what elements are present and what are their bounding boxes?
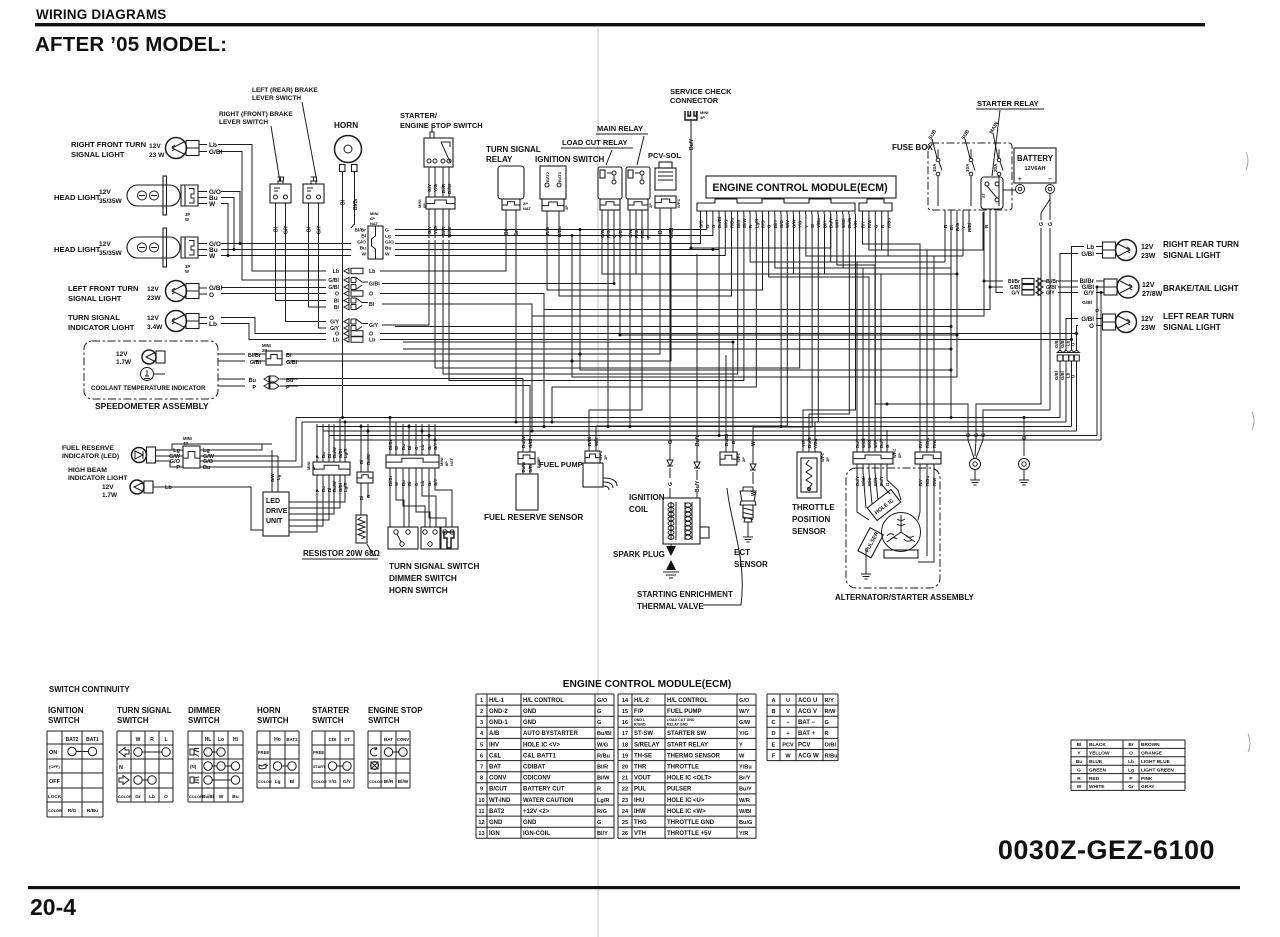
svg-text:G/Bl: G/Bl — [209, 149, 223, 156]
svg-text:Lb: Lb — [209, 142, 217, 149]
svg-text:Bl/W: Bl/W — [398, 779, 409, 785]
ECT W wire — [752, 427, 754, 464]
svg-text:WATER CAUTION: WATER CAUTION — [523, 798, 573, 804]
svg-text:GND: GND — [523, 709, 537, 715]
wire — [395, 326, 951, 328]
svg-text:R: R — [825, 731, 829, 737]
wire — [809, 214, 849, 414]
svg-text:BRAKE/TAIL LIGHT: BRAKE/TAIL LIGHT — [1163, 284, 1239, 293]
junction — [428, 434, 431, 437]
horn wires — [342, 172, 344, 241]
wire — [962, 210, 964, 256]
svg-text:1.7W: 1.7W — [102, 492, 118, 499]
svg-text:PUL: PUL — [634, 787, 646, 793]
svg-text:W/Y: W/Y — [594, 437, 599, 446]
wire — [1096, 287, 1098, 436]
wire — [221, 249, 351, 251]
svg-text:W: W — [185, 269, 189, 274]
wire — [301, 422, 303, 424]
svg-text:Bl: Bl — [334, 305, 340, 311]
wire — [415, 424, 417, 440]
svg-text:O: O — [1095, 308, 1099, 314]
wire — [780, 214, 782, 427]
wire — [323, 430, 1077, 432]
svg-text:BAT2: BAT2 — [545, 171, 550, 182]
ECM pin 7 Bl/R — [737, 211, 739, 214]
svg-text:(N): (N) — [190, 764, 197, 769]
wire — [580, 230, 951, 371]
svg-text:Bl/R: Bl/R — [441, 183, 446, 193]
wire — [286, 238, 327, 322]
wire — [221, 198, 234, 250]
junction — [1096, 286, 1099, 289]
wire — [775, 214, 951, 268]
wire — [1043, 280, 1048, 282]
svg-text:R: R — [1077, 776, 1081, 782]
wire — [552, 214, 756, 422]
svg-text:GND-1: GND-1 — [489, 720, 508, 726]
svg-text:ENGINE CONTROL MODULE(ECM): ENGINE CONTROL MODULE(ECM) — [563, 679, 731, 690]
wire — [380, 339, 1072, 341]
svg-text:BROWN: BROWN — [1141, 742, 1160, 748]
wires LED to connector — [156, 449, 184, 451]
svg-text:12V: 12V — [99, 241, 111, 248]
svg-text:22: 22 — [622, 787, 628, 793]
wire — [863, 214, 921, 426]
lamp head light 1 — [127, 176, 198, 222]
ECM connector B — [859, 199, 892, 211]
junction — [732, 341, 735, 344]
wire — [403, 342, 733, 436]
svg-text:W/Bl: W/Bl — [739, 809, 752, 815]
svg-text:6: 6 — [480, 753, 483, 759]
junction — [983, 280, 986, 283]
wire — [380, 240, 506, 271]
svg-text:HIGH BEAM: HIGH BEAM — [68, 467, 107, 474]
svg-text:Bl: Bl — [369, 302, 375, 308]
svg-text:Lb: Lb — [420, 444, 425, 450]
wires head light 2 — [198, 243, 207, 245]
svg-text:R/G: R/G — [597, 809, 607, 815]
ECM pin 21 Bl/Y — [823, 211, 825, 214]
ECM pin A R/Y — [862, 211, 864, 214]
wire — [449, 214, 744, 381]
wire speedo Bl/Br — [218, 353, 245, 355]
svg-text:R/Bu: R/Bu — [597, 753, 611, 759]
ECM pin 26 Y/R — [854, 211, 856, 214]
junction — [956, 334, 959, 337]
wire — [382, 240, 614, 284]
ECM pin 10 Lg/R — [755, 211, 757, 214]
svg-text:LEVER SWITCH: LEVER SWITCH — [219, 119, 268, 126]
svg-text:W: W — [751, 441, 757, 446]
svg-text:Bu: Bu — [1076, 759, 1082, 765]
svg-text:12: 12 — [478, 820, 484, 826]
svg-text:THROTTLE +5V: THROTTLE +5V — [667, 831, 712, 837]
header rule — [35, 23, 1205, 26]
svg-text:2P: 2P — [564, 205, 569, 210]
svg-text:Bl: Bl — [290, 779, 295, 785]
ECM pin 19 W — [811, 211, 813, 214]
wire — [1058, 286, 1078, 288]
svg-text:SIGNAL LIGHT: SIGNAL LIGHT — [1163, 251, 1221, 260]
svg-text:Y: Y — [739, 742, 743, 748]
ECM pin 25 Bu/G — [848, 211, 850, 214]
svg-text:TURN SIGNAL: TURN SIGNAL — [117, 706, 172, 715]
svg-text:−: − — [1048, 176, 1052, 183]
wire — [221, 293, 326, 295]
ECM pin 5 W/G — [724, 211, 726, 214]
svg-text:G: G — [825, 720, 829, 726]
wire Bu/Y — [690, 120, 692, 248]
svg-text:H/L-2: H/L-2 — [634, 698, 650, 704]
svg-text:COLOR: COLOR — [258, 780, 272, 784]
svg-text:R/W: R/W — [867, 219, 872, 228]
svg-text:ORANGE: ORANGE — [1141, 751, 1163, 757]
svg-text:+: + — [1018, 176, 1022, 183]
svg-text:BAT2: BAT2 — [489, 809, 505, 815]
svg-text:COLOR: COLOR — [369, 780, 383, 784]
svg-text:26: 26 — [622, 831, 628, 837]
svg-text:Hi: Hi — [233, 737, 239, 743]
svg-text:Y/R: Y/R — [739, 831, 748, 837]
svg-text:HOLE IC <V>: HOLE IC <V> — [523, 742, 561, 748]
svg-text:Lg: Lg — [1128, 767, 1134, 773]
svg-text:W: W — [751, 491, 757, 496]
wire — [287, 379, 523, 430]
svg-text:Bl: Bl — [359, 460, 364, 464]
svg-text:STARTER RELAY: STARTER RELAY — [977, 99, 1039, 108]
svg-text:W/G: W/G — [723, 219, 728, 228]
svg-text:ALTERNATOR/STARTER ASSEMBLY: ALTERNATOR/STARTER ASSEMBLY — [835, 593, 974, 602]
svg-text:G/Bl: G/Bl — [618, 229, 623, 238]
svg-text:SENSOR: SENSOR — [734, 560, 768, 569]
junction — [607, 425, 610, 428]
junction — [434, 439, 437, 442]
svg-text:PINK: PINK — [1141, 776, 1153, 782]
wire — [1071, 361, 1073, 427]
switch right front brake lever — [270, 177, 291, 203]
connector mini 2P resistor — [357, 472, 373, 483]
svg-text:ENGINE STOP SWITCH: ENGINE STOP SWITCH — [400, 121, 483, 130]
svg-text:IGN-COIL: IGN-COIL — [523, 831, 550, 837]
ECM pin 24 W/Bl — [842, 211, 844, 214]
wire — [1059, 361, 1061, 418]
svg-text:FUEL PUMP: FUEL PUMP — [667, 709, 702, 715]
svg-text:BLUE: BLUE — [1089, 759, 1103, 765]
wire — [302, 421, 1066, 423]
svg-text:25: 25 — [622, 820, 628, 826]
svg-text:RIGHT FRONT TURN: RIGHT FRONT TURN — [71, 140, 146, 149]
wire — [976, 228, 1041, 440]
wire — [221, 243, 351, 245]
svg-text:R/Y: R/Y — [861, 221, 866, 228]
svg-text:NAT: NAT — [370, 221, 378, 226]
svg-text:Y/G: Y/G — [433, 184, 438, 192]
svg-text:HORN: HORN — [334, 121, 358, 130]
svg-text:DIMMER: DIMMER — [188, 706, 221, 715]
wire — [725, 355, 727, 444]
lamp speedometer illumination 12V 1.7W — [142, 350, 165, 364]
wire — [990, 286, 1003, 288]
wire — [544, 211, 990, 310]
wire — [559, 214, 732, 296]
svg-text:LOAD CUT RELAY: LOAD CUT RELAY — [562, 138, 628, 147]
svg-text:HOLE IC <U>: HOLE IC <U> — [667, 798, 705, 804]
svg-text:THROTTLE: THROTTLE — [667, 765, 699, 771]
svg-text:A: A — [771, 698, 775, 704]
wire — [395, 214, 707, 230]
svg-text:Lb: Lb — [333, 338, 339, 344]
svg-text:G/Bl: G/Bl — [328, 278, 339, 284]
svg-text:F: F — [772, 753, 776, 759]
svg-text:G/Bl: G/Bl — [1054, 339, 1059, 348]
svg-text:HORN: HORN — [257, 706, 281, 715]
svg-text:CONV: CONV — [489, 776, 506, 782]
lamp left rear turn signal light — [1103, 312, 1137, 333]
svg-text:SIGNAL LIGHT: SIGNAL LIGHT — [1163, 323, 1221, 332]
svg-text:G/Bl: G/Bl — [1054, 371, 1059, 380]
svg-text:RIGHT (FRONT) BRAKE: RIGHT (FRONT) BRAKE — [219, 111, 293, 118]
svg-text:HOLE IC <OLT>: HOLE IC <OLT> — [667, 776, 712, 782]
wire — [1071, 340, 1073, 351]
junction — [408, 425, 411, 428]
svg-text:TURN SIGNAL: TURN SIGNAL — [68, 313, 120, 322]
svg-text:R/Y: R/Y — [918, 441, 923, 448]
wire Lb — [199, 144, 207, 146]
wire — [360, 424, 362, 427]
svg-text:HEAD LIGHT: HEAD LIGHT — [54, 193, 101, 202]
svg-text:ECT: ECT — [734, 548, 750, 557]
svg-text:23: 23 — [622, 798, 628, 804]
junction — [344, 421, 347, 424]
svg-text:W: W — [209, 253, 216, 260]
coolant temperature indicator lamp — [141, 368, 154, 381]
svg-text:Lg: Lg — [276, 474, 281, 480]
svg-text:A/B: A/B — [489, 731, 500, 737]
wire — [295, 418, 297, 425]
speedometer assembly enclosure — [84, 341, 218, 399]
svg-text:R/Bl: R/Bl — [640, 229, 645, 238]
svg-text:SWITCH: SWITCH — [312, 716, 344, 725]
svg-text:THROTTLE GND: THROTTLE GND — [667, 820, 715, 826]
svg-text:LED: LED — [266, 498, 280, 505]
svg-text:12V: 12V — [147, 315, 159, 322]
svg-text:COLOR: COLOR — [313, 780, 327, 784]
svg-text:R/G: R/G — [545, 226, 550, 235]
wires — [1096, 280, 1104, 282]
svg-text:SWITCH: SWITCH — [257, 716, 289, 725]
svg-text:+12V <2>: +12V <2> — [523, 809, 550, 815]
svg-text:6P: 6P — [897, 453, 902, 458]
wire — [339, 418, 341, 425]
svg-text:Bl: Bl — [274, 226, 280, 232]
svg-text:G/O: G/O — [739, 698, 750, 704]
svg-text:MAIN RELAY: MAIN RELAY — [597, 124, 643, 133]
wire — [344, 422, 346, 424]
svg-text:Bu: Bu — [385, 246, 391, 252]
svg-text:WHITE: WHITE — [1089, 784, 1105, 790]
svg-text:COOLANT TEMPERATURE INDICATOR: COOLANT TEMPERATURE INDICATOR — [91, 385, 206, 392]
wire — [620, 240, 957, 335]
wires — [1096, 318, 1103, 320]
ECM pin 1 G/O — [700, 211, 702, 214]
wire — [532, 211, 984, 316]
wire Bu — [218, 378, 245, 380]
turn signal relay — [498, 166, 524, 199]
wire — [395, 214, 725, 256]
svg-text:Bl/R: Bl/R — [597, 765, 608, 771]
svg-text:35/35W: 35/35W — [99, 198, 123, 205]
wires to connector — [428, 167, 430, 197]
ECM pin 23 W/R — [835, 211, 837, 214]
junction — [1075, 332, 1078, 335]
svg-text:G/Y: G/Y — [427, 226, 432, 234]
battery wires — [1003, 189, 1016, 191]
svg-text:G: G — [1048, 222, 1054, 226]
svg-text:23 W: 23 W — [149, 152, 165, 159]
svg-text:BAT −: BAT − — [798, 720, 816, 726]
svg-text:Bu: Bu — [360, 246, 366, 252]
svg-text:R/G: R/G — [634, 230, 639, 238]
svg-text:Lb: Lb — [165, 485, 172, 491]
ECM pin 11 R/G — [761, 211, 763, 214]
svg-text:SIGNAL LIGHT: SIGNAL LIGHT — [71, 150, 125, 159]
svg-text:Bl/Br: Bl/Br — [353, 198, 359, 210]
svg-text:Bu/W: Bu/W — [521, 462, 526, 473]
svg-text:Lb: Lb — [369, 269, 375, 275]
svg-text:BATTERY CUT: BATTERY CUT — [523, 787, 565, 793]
svg-text:Bu: Bu — [401, 444, 406, 450]
wire Lb high beam — [153, 486, 163, 488]
wire — [547, 214, 763, 290]
wire — [428, 424, 430, 436]
svg-text:OFF: OFF — [49, 779, 61, 785]
junction — [1023, 416, 1026, 419]
svg-text:G: G — [668, 482, 674, 486]
junction — [711, 248, 714, 251]
ECM pin E R/Bu — [887, 211, 889, 214]
svg-text:PULSER: PULSER — [667, 787, 692, 793]
starter relay — [981, 177, 1003, 209]
svg-text:IGN: IGN — [489, 831, 500, 837]
svg-text:35/35W: 35/35W — [99, 250, 123, 257]
wire — [1076, 334, 1078, 351]
svg-text:G/Bl: G/Bl — [1060, 371, 1065, 380]
wires below 6P to LED drive unit — [289, 475, 317, 532]
svg-text:GND: GND — [523, 820, 537, 826]
svg-text:Bl/R: Bl/R — [441, 226, 446, 236]
svg-text:THR: THR — [634, 765, 647, 771]
svg-text:W: W — [385, 252, 390, 258]
wire — [996, 211, 1003, 293]
page crease line — [597, 28, 599, 937]
svg-text:Lb: Lb — [149, 794, 155, 800]
svg-text:O/Bl: O/Bl — [825, 742, 837, 748]
ignition switch — [540, 166, 566, 199]
fuel reserve sensor wires up — [522, 429, 524, 452]
footer rule — [28, 886, 1240, 889]
svg-text:1.7W: 1.7W — [116, 359, 132, 366]
svg-text:H/L CONTROL: H/L CONTROL — [667, 698, 708, 704]
svg-text:WIRING DIAGRAMS: WIRING DIAGRAMS — [36, 7, 167, 22]
svg-text:V: V — [786, 709, 790, 715]
svg-text:Gr: Gr — [427, 445, 432, 450]
svg-text:8: 8 — [480, 776, 483, 782]
wire — [1066, 319, 1078, 351]
svg-text:Lg: Lg — [385, 234, 391, 240]
ECM pin C G — [874, 211, 876, 214]
svg-text:F/P: F/P — [634, 709, 643, 715]
svg-text:ACG V: ACG V — [798, 709, 817, 715]
svg-text:10A: 10A — [932, 163, 937, 172]
svg-text:Bu: Bu — [321, 486, 326, 492]
svg-text:LEFT FRONT TURN: LEFT FRONT TURN — [68, 284, 138, 293]
svg-text:START: START — [313, 765, 326, 769]
wire — [221, 192, 240, 244]
ECM pin 8 Bl/W — [743, 211, 745, 214]
wire — [1100, 293, 1102, 441]
svg-text:1: 1 — [480, 698, 483, 704]
svg-text:B/CUT: B/CUT — [489, 787, 508, 793]
svg-text:Bl/W: Bl/W — [447, 183, 452, 194]
svg-text:W: W — [1077, 784, 1082, 790]
svg-text:VOUT: VOUT — [634, 776, 651, 782]
svg-text:POSITION: POSITION — [792, 515, 830, 524]
svg-text:5: 5 — [480, 742, 483, 748]
svg-text:LEFT (REAR) BRAKE: LEFT (REAR) BRAKE — [252, 87, 318, 94]
svg-text:2: 2 — [480, 709, 483, 715]
junction — [619, 334, 622, 337]
svg-text:GREEN: GREEN — [1089, 767, 1107, 773]
svg-text:27/8W: 27/8W — [1142, 291, 1163, 298]
horn — [335, 136, 362, 172]
battery terminals — [1016, 185, 1025, 194]
svg-text:LIGHT BLUE: LIGHT BLUE — [1141, 759, 1171, 765]
scan artifact marks — [1246, 152, 1248, 170]
TPS wires — [802, 430, 804, 452]
svg-text:Bl: Bl — [341, 199, 347, 205]
svg-text:Bl/W: Bl/W — [742, 218, 747, 228]
svg-text:PCV: PCV — [782, 742, 794, 748]
svg-text:G/Y: G/Y — [330, 326, 339, 332]
wire — [1058, 292, 1078, 294]
svg-text:Bu/Bl: Bu/Bl — [202, 794, 213, 799]
svg-text:G/Bl: G/Bl — [328, 285, 339, 291]
fuse box enclosure — [928, 143, 1012, 210]
svg-text:FUSE BOX: FUSE BOX — [892, 143, 934, 152]
service check connector — [685, 111, 697, 120]
wire — [403, 348, 951, 350]
svg-text:Bl: Bl — [307, 226, 313, 232]
lamp high beam indicator — [130, 480, 153, 494]
svg-text:12V: 12V — [1141, 244, 1154, 251]
ECM pin 9 R — [749, 211, 751, 214]
wire — [395, 214, 701, 244]
svg-text:G/O: G/O — [357, 240, 366, 246]
wire — [825, 214, 882, 430]
ECM pin 13 Bl/Y — [774, 211, 776, 214]
svg-text:LOAD CUT GND: LOAD CUT GND — [667, 718, 695, 722]
svg-text:23W: 23W — [147, 295, 161, 302]
svg-text:BATTERY: BATTERY — [1017, 154, 1054, 163]
ECM pin 15 W/Y — [786, 211, 788, 214]
wires head light 1 — [198, 191, 207, 193]
svg-text:3P: 3P — [700, 115, 705, 120]
wire — [287, 240, 660, 354]
load cut relay — [626, 167, 650, 199]
svg-text:BAT: BAT — [384, 737, 393, 742]
